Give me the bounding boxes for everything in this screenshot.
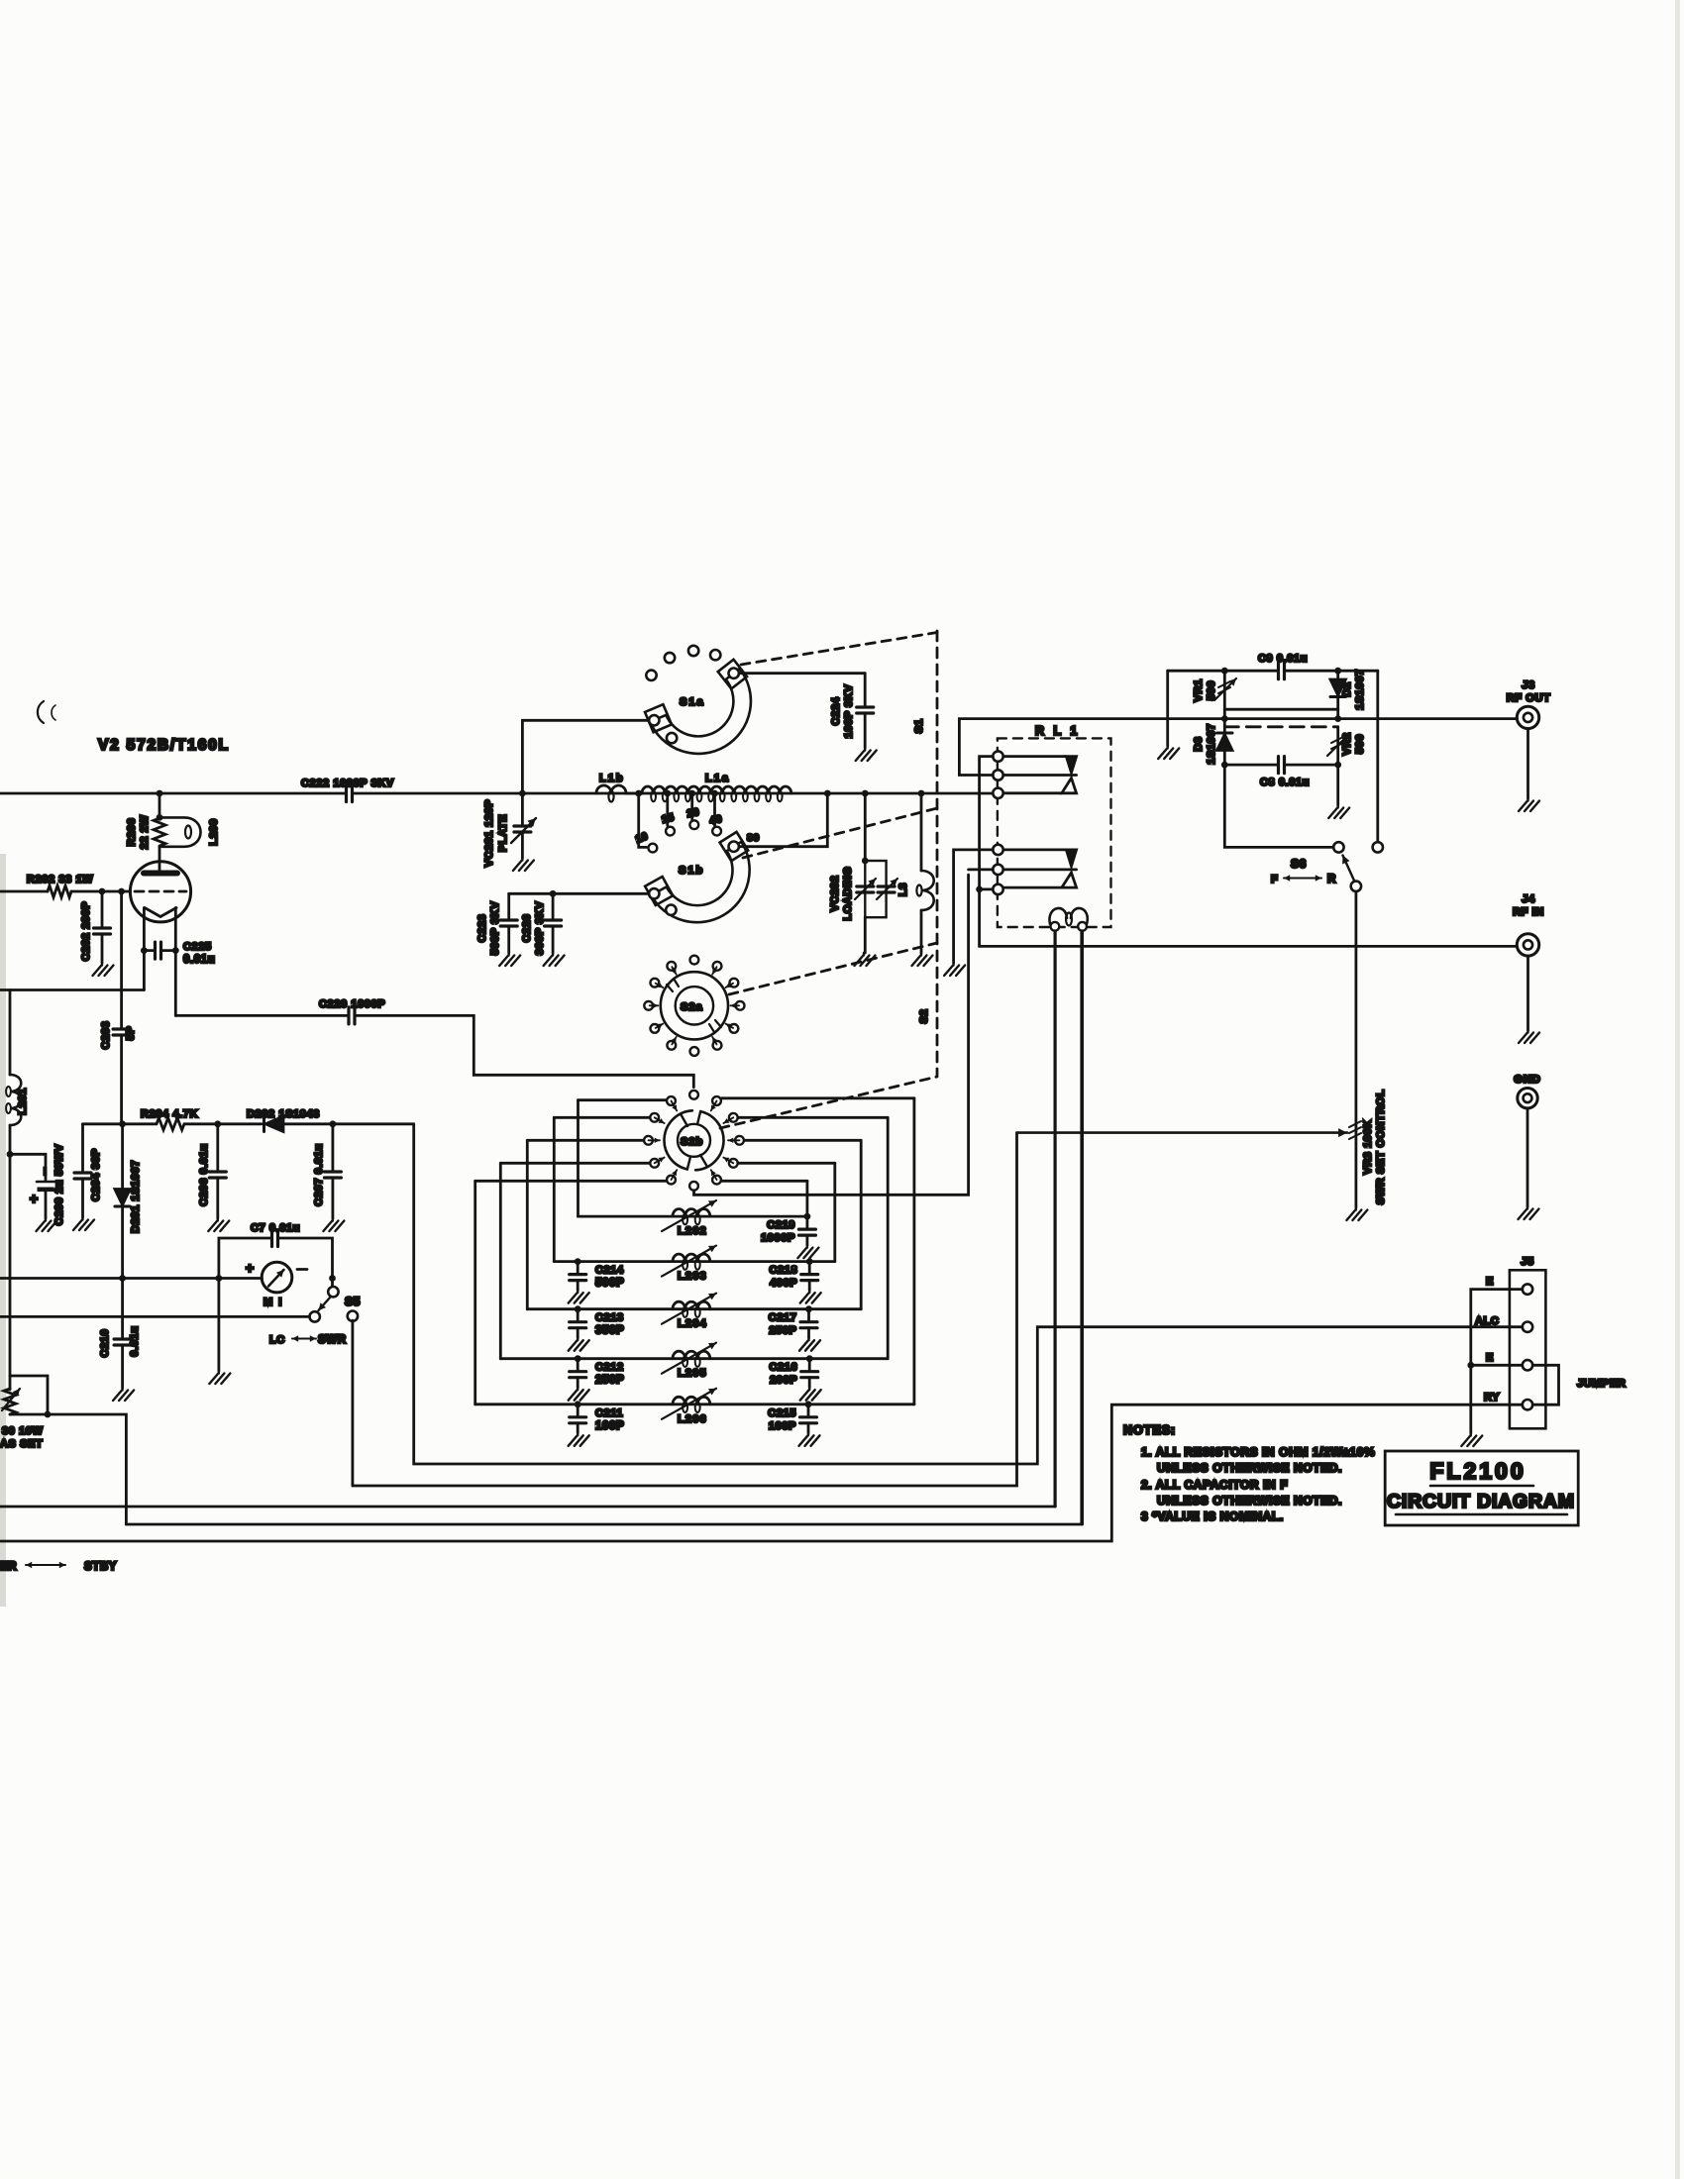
S1a contact <box>665 653 675 663</box>
svg-text:M I: M I <box>263 1297 283 1308</box>
svg-text:400P: 400P <box>770 1278 797 1290</box>
terminal 10 <box>649 844 658 853</box>
node main line right <box>1334 715 1341 722</box>
S1a contact (engaged right) <box>729 669 739 678</box>
wire to row1 right <box>806 1181 809 1216</box>
node C209 branch <box>7 1151 14 1158</box>
ground C206 <box>208 1218 229 1231</box>
svg-text:AS SET: AS SET <box>0 1438 43 1450</box>
svg-text:R204 4.7K: R204 4.7K <box>141 1108 198 1120</box>
capacitor C210 <box>121 1279 124 1338</box>
wire RL1 coil B to bus4 <box>1081 931 1084 1524</box>
capacitor C204 <box>74 1173 91 1179</box>
wire S2b NE contact <box>722 1096 914 1099</box>
wire S2b SW contact <box>475 1180 667 1183</box>
wire S2b rotor bottom to RL1 c5 <box>694 875 969 1195</box>
wire bias to bus4 <box>10 1414 126 1524</box>
wire J4 to ground <box>1526 956 1529 1030</box>
ground C216 <box>800 1388 821 1401</box>
svg-text:C214: C214 <box>595 1265 624 1277</box>
svg-text:L206: L206 <box>678 1413 707 1425</box>
node C7 left <box>216 1275 223 1282</box>
wire left rail to L201 <box>9 990 12 1076</box>
svg-text:STBY: STBY <box>84 1561 117 1573</box>
wire C8 right to ground <box>1336 765 1339 805</box>
node VC201/S1a <box>519 790 526 797</box>
wire row L204 <box>527 1307 861 1310</box>
ground C211 <box>569 1433 589 1446</box>
node main line left <box>1221 715 1228 722</box>
svg-text:200P: 200P <box>770 1375 797 1387</box>
svg-text:L201: L201 <box>17 1088 29 1114</box>
node C8 left <box>1221 762 1228 769</box>
svg-text:S2a: S2a <box>681 1001 703 1013</box>
wire bridge bottom rail <box>1224 764 1278 767</box>
ground meter <box>209 1371 230 1384</box>
svg-text:30 10W: 30 10W <box>2 1425 44 1437</box>
S2b contact <box>689 1091 698 1099</box>
ground L3 <box>912 953 933 966</box>
svg-text:C212: C212 <box>595 1362 624 1374</box>
wire C7 rail <box>219 1238 271 1279</box>
S2b contact <box>650 1159 659 1168</box>
scan edge band right <box>1675 0 1680 2179</box>
wire bus4 riser <box>1080 931 1083 1524</box>
svg-text:C213: C213 <box>595 1312 624 1324</box>
capacitor C226 <box>545 920 562 926</box>
ground VR3 <box>1346 1207 1367 1220</box>
dashed gang line S2a <box>729 943 937 994</box>
svg-text:RF OUT: RF OUT <box>1507 692 1551 704</box>
wire plate line left <box>0 792 346 795</box>
S1a contact <box>646 671 656 680</box>
capacitor C209 (electrolytic) <box>37 1181 54 1184</box>
wire tap 15 <box>666 793 669 826</box>
wire RL1 c4 to ground <box>954 850 994 963</box>
variable resistor VR1 <box>1223 671 1226 709</box>
wire S6 to VR3 <box>1355 891 1358 1131</box>
ground C224 <box>856 748 877 761</box>
RL1 contact c2 <box>993 770 1002 780</box>
svg-text:C217: C217 <box>769 1312 797 1324</box>
svg-text:E: E <box>1486 1276 1494 1288</box>
wire S2b E contact <box>745 1139 862 1142</box>
S2a contact <box>713 962 722 971</box>
svg-text:80: 80 <box>747 832 760 844</box>
svg-text:L3: L3 <box>897 883 909 896</box>
svg-text:GND: GND <box>1514 1074 1540 1086</box>
svg-text:C220 1000P: C220 1000P <box>319 998 385 1010</box>
capacitor C218 <box>801 1275 818 1281</box>
node L3 <box>918 790 925 797</box>
svg-text:JUMPER: JUMPER <box>1577 1378 1626 1390</box>
wire VC202 to ground <box>864 917 867 953</box>
wire to row5 right <box>913 1098 916 1404</box>
svg-text:L1b: L1b <box>599 773 625 784</box>
svg-text:100P 3KV: 100P 3KV <box>843 684 855 739</box>
svg-text:C224: C224 <box>830 696 842 725</box>
svg-text:40: 40 <box>708 813 723 827</box>
svg-text:ER: ER <box>0 1561 17 1573</box>
wire tap 40 <box>713 793 716 826</box>
svg-text:L209: L209 <box>208 818 220 845</box>
S2b contact <box>729 1113 738 1122</box>
wire cathode to C220 <box>174 951 177 1016</box>
S2a contact <box>713 1041 722 1050</box>
svg-text:R202 33 1W: R202 33 1W <box>27 874 93 885</box>
svg-text:C210: C210 <box>99 1329 111 1358</box>
J5 pin E1 <box>1523 1284 1532 1294</box>
svg-text:1. ALL RESISTORS IN OHM 1/: 1. ALL RESISTORS IN OHM 1/2W±10% <box>1141 1445 1375 1459</box>
capacitor C202 <box>94 928 111 934</box>
ground C214 <box>569 1291 589 1303</box>
wire S2b ENE contact <box>739 1116 889 1119</box>
ground bridge right <box>1328 805 1349 818</box>
ground C218 <box>800 1291 821 1303</box>
wire S2b ESE contact <box>739 1162 835 1165</box>
wire bus3 left <box>0 1506 1055 1508</box>
svg-text:250P: 250P <box>769 1325 796 1337</box>
S1a contact <box>688 646 698 656</box>
wire RY bus <box>0 1404 1523 1541</box>
terminal 20 <box>689 820 698 829</box>
svg-text:F: F <box>1271 874 1278 885</box>
svg-text:+: + <box>30 1191 39 1206</box>
terminal 40 <box>712 827 721 836</box>
wire to row4 right <box>887 1117 890 1358</box>
svg-text:C8 0.01u: C8 0.01u <box>1260 777 1310 788</box>
rotary switch S2a <box>661 972 728 1039</box>
svg-text:C218: C218 <box>769 1265 797 1277</box>
wire ALC bus (D202 to J5 ALC) <box>414 1124 1523 1464</box>
svg-text:R206: R206 <box>126 818 138 847</box>
wire meter left to ground <box>217 1279 220 1372</box>
dashed coupling line <box>1224 725 1337 728</box>
wire to VC201 <box>521 793 524 824</box>
wire S1a left to plate line <box>522 720 649 791</box>
svg-text:C215: C215 <box>768 1407 796 1419</box>
connector J4 RF IN <box>1517 934 1538 956</box>
capacitor C217 <box>800 1322 817 1328</box>
node C217 <box>805 1305 812 1312</box>
wire E pins common <box>1471 1290 1523 1433</box>
wire to row1 left <box>577 1100 579 1216</box>
J5 pin RY <box>1523 1400 1532 1409</box>
node tap 40 <box>711 790 718 797</box>
wire bridge to S6 F contact <box>1224 765 1332 847</box>
ground C219 <box>797 1245 818 1258</box>
ground C215 <box>799 1433 820 1446</box>
wire to C207 <box>331 1124 334 1170</box>
inductor L206 (variable) <box>673 1397 710 1404</box>
svg-text:PLATE: PLATE <box>497 814 509 852</box>
svg-text:250P: 250P <box>595 1375 624 1387</box>
S2a contact <box>736 1001 745 1010</box>
node VC202 <box>862 790 869 797</box>
node tap 10 <box>635 790 642 797</box>
svg-text:R: R <box>1327 874 1336 885</box>
node C206 <box>214 1120 221 1127</box>
wire to row5 left <box>474 1181 476 1404</box>
node C207 <box>330 1120 337 1127</box>
tube V2 cathode <box>145 908 176 917</box>
capacitor C9 (series) <box>1279 663 1285 679</box>
wire row L206 <box>475 1403 914 1405</box>
inductor L205 (variable) <box>673 1351 710 1358</box>
S2a contact <box>690 1047 699 1056</box>
svg-text:ALC: ALC <box>1475 1315 1499 1327</box>
svg-text:C203: C203 <box>100 1021 112 1050</box>
ground GND <box>1519 1206 1539 1219</box>
svg-text:500: 500 <box>1206 680 1217 700</box>
S2a contact <box>690 956 699 965</box>
svg-text:D3: D3 <box>1193 736 1205 751</box>
ground C223 <box>499 953 520 966</box>
variable capacitor VC202 (2-gang) <box>865 861 886 917</box>
wire 80 tap to plate line <box>739 795 827 847</box>
wire C223 <box>507 893 510 918</box>
ground J4 <box>1519 1030 1539 1043</box>
ground C217 <box>799 1338 820 1351</box>
node C225 right <box>172 947 179 954</box>
ground C226 <box>544 953 565 966</box>
svg-text:5P: 5P <box>125 1026 137 1041</box>
inductor L3 <box>921 871 934 910</box>
inductor L1b <box>596 785 626 793</box>
switch S5 <box>331 1279 334 1288</box>
node D201-C210 <box>119 1275 126 1282</box>
S2b contact <box>712 1176 721 1185</box>
wire to row2 left <box>553 1117 556 1261</box>
capacitor C224 <box>857 707 874 713</box>
capacitor C225 <box>156 942 161 959</box>
ground J3 <box>1519 798 1539 811</box>
inductor L203 (variable) <box>673 1254 710 1261</box>
wire row L205 <box>500 1357 888 1360</box>
S1a ring hole <box>667 733 677 743</box>
svg-text:C216: C216 <box>769 1362 797 1374</box>
RL1 contact c4 <box>993 845 1002 855</box>
terminal 15 <box>666 827 675 836</box>
svg-text:SWR: SWR <box>318 1334 347 1346</box>
svg-text:J4: J4 <box>1522 893 1535 905</box>
wire C225 right <box>161 949 176 952</box>
svg-text:V2 572B/T160L: V2 572B/T160L <box>98 737 230 754</box>
ground C212 <box>569 1388 589 1401</box>
wire R206 to plate <box>158 847 161 871</box>
resistor R206 <box>154 818 165 846</box>
wire bus3 riser <box>1054 931 1057 1507</box>
svg-text:VC202: VC202 <box>829 876 841 912</box>
svg-text:C219: C219 <box>767 1219 795 1231</box>
S1b ring hole <box>666 905 676 915</box>
svg-text:L205: L205 <box>678 1368 707 1380</box>
wire to C202 <box>101 891 104 927</box>
svg-text:NOTES:: NOTES: <box>1123 1423 1176 1437</box>
wire bus4 <box>126 1523 1081 1526</box>
svg-text:2. ALL CAPACITOR IN F: 2. ALL CAPACITOR IN F <box>1141 1478 1288 1492</box>
capacitor C216 <box>801 1372 818 1378</box>
capacitor C203 <box>113 1029 130 1035</box>
wire tap 10 <box>639 793 647 847</box>
wire C224 top <box>864 674 867 705</box>
ground VC201 <box>513 858 534 871</box>
wire S1a right to C224 <box>739 672 865 675</box>
svg-text:C206 0.01u: C206 0.01u <box>198 1143 210 1205</box>
node 80 tap <box>824 790 831 797</box>
svg-text:UNLESS OTHERWISE NOTED.: UNLESS OTHERWISE NOTED. <box>1157 1461 1342 1475</box>
wire C226 <box>552 893 555 918</box>
svg-text:S1b: S1b <box>679 865 704 877</box>
resistor R202 <box>48 885 71 897</box>
RL1 contact c3 <box>993 788 1002 798</box>
inductor L1a <box>642 786 791 793</box>
wire to VC202 <box>864 793 867 861</box>
S2a contact <box>667 962 676 971</box>
svg-text:VR1: VR1 <box>1193 678 1205 701</box>
svg-text:20: 20 <box>685 806 700 820</box>
svg-text:C209 2u 50WV: C209 2u 50WV <box>53 1144 65 1225</box>
svg-text:100P: 100P <box>769 1420 796 1432</box>
VC201 arrow <box>511 818 536 843</box>
svg-text:0.01u: 0.01u <box>129 1325 141 1356</box>
connector J3 RF OUT <box>1517 706 1538 728</box>
svg-text:L202: L202 <box>678 1225 707 1237</box>
svg-text:C202 200P: C202 200P <box>80 901 92 961</box>
capacitor C222 (series) <box>347 785 353 802</box>
svg-text:L204: L204 <box>678 1318 707 1330</box>
wire to E2 pin <box>1471 1364 1523 1367</box>
svg-text:+: + <box>246 1260 255 1276</box>
ground C204 <box>73 1217 94 1230</box>
node C212 <box>575 1355 581 1362</box>
ground C213 <box>569 1338 589 1351</box>
node tap 20 <box>688 790 695 797</box>
svg-text:S1a: S1a <box>680 696 705 708</box>
capacitor C207 <box>324 1172 341 1178</box>
node C213 <box>575 1305 581 1312</box>
wire grid line <box>0 890 48 893</box>
svg-text:E: E <box>1486 1352 1494 1364</box>
wire RL1 c5 <box>969 869 994 872</box>
capacitor C223 <box>500 920 517 926</box>
J5 pin ALC <box>1523 1322 1532 1332</box>
S2b contact <box>712 1096 721 1105</box>
rotary switch S1a <box>718 660 747 689</box>
S2b contact <box>735 1136 744 1145</box>
S6 contact R <box>1373 842 1383 852</box>
S2a contact <box>644 1001 653 1010</box>
node C203 branch <box>118 888 125 895</box>
S1a contact (engaged left) <box>649 715 659 725</box>
S2b contact <box>667 1176 676 1185</box>
J5 pin E2 <box>1523 1360 1532 1370</box>
resistor R204 <box>157 1118 184 1130</box>
tube V2 grid <box>135 890 186 893</box>
connector GND <box>1518 1089 1537 1108</box>
dashed gang line S1b <box>743 808 937 858</box>
relay RL1 lower armature <box>1003 849 1066 852</box>
wire D202 to bus1 corner <box>283 1122 414 1125</box>
svg-text:C223: C223 <box>476 914 488 943</box>
capacitor C220 (series) <box>349 1007 355 1024</box>
svg-text:LOADING: LOADING <box>842 867 854 921</box>
svg-text:J3: J3 <box>1522 679 1534 691</box>
capacitor C214 <box>570 1275 586 1281</box>
wire tap 20 <box>690 793 693 819</box>
svg-text:1S1007: 1S1007 <box>1354 669 1366 710</box>
capacitor C215 <box>800 1417 817 1423</box>
wire S2b WNW contact <box>554 1116 649 1119</box>
RL1 contact c5 <box>993 865 1002 875</box>
capacitor C219 <box>798 1229 815 1235</box>
wire S2b SE contact <box>722 1180 807 1183</box>
svg-text:C225: C225 <box>183 941 212 953</box>
wire plate line to RL1 c3 <box>353 792 994 795</box>
diode D3 <box>1223 719 1226 766</box>
svg-text:C211: C211 <box>595 1407 623 1419</box>
RL1 contact c6 <box>993 884 1002 894</box>
wire L3 to ground <box>920 910 923 953</box>
capacitor C212 <box>570 1372 586 1378</box>
node bias out <box>45 1411 52 1418</box>
title box FL2100 CIRCUIT DIAGRAM <box>1385 1451 1578 1525</box>
node C219 <box>804 1213 811 1220</box>
ground RL1 c4 <box>944 963 965 976</box>
dashed gang line S1a <box>741 633 937 666</box>
ground C209 <box>37 1218 57 1231</box>
svg-text:S1: S1 <box>913 719 925 734</box>
wire bridge mid rail <box>1224 708 1337 711</box>
svg-text:J5: J5 <box>1521 1256 1533 1268</box>
svg-text:FL2100: FL2100 <box>1429 1458 1526 1484</box>
wire VR3 wiper from bus2 <box>1017 1131 1348 1134</box>
S1b contact (engaged left) <box>649 888 659 898</box>
svg-text:S6: S6 <box>1291 857 1307 871</box>
node C218 <box>806 1258 813 1265</box>
inductor L202 (variable) <box>673 1209 710 1216</box>
wire C220 left <box>175 1014 348 1017</box>
ground C202 <box>93 963 114 976</box>
S6 contact F <box>1333 842 1343 852</box>
wire bias bypass <box>10 1376 48 1414</box>
svg-text:0.01u: 0.01u <box>183 954 215 966</box>
wire row L202 <box>579 1215 807 1218</box>
node C216 <box>806 1355 813 1362</box>
node c1-c6 join <box>976 886 983 893</box>
wire RL1 coil A to bus3 <box>1054 931 1057 1507</box>
wire to C209 <box>10 1154 46 1180</box>
node VR1 top <box>1221 668 1228 675</box>
ground VC202 <box>855 953 876 966</box>
tube V2 envelope <box>130 862 190 922</box>
node VC202 box top <box>862 858 869 865</box>
ground C210 <box>113 1388 134 1401</box>
svg-text:500P: 500P <box>595 1278 624 1290</box>
S2b contact <box>729 1159 738 1168</box>
wire S1b left to C223/C226 <box>509 892 649 895</box>
wire GND to ground <box>1526 1108 1529 1206</box>
svg-text:I.C: I.C <box>269 1334 285 1346</box>
wire meter line <box>0 1277 262 1280</box>
wire RL1 c6 to J4 RF IN <box>980 889 1518 947</box>
diode D2 <box>1336 671 1339 709</box>
svg-text:C204 30P: C204 30P <box>90 1148 102 1201</box>
svg-text:UNLESS OTHERWISE NOTED.: UNLESS OTHERWISE NOTED. <box>1157 1494 1342 1508</box>
wire to row4 left <box>499 1163 502 1358</box>
node C226 <box>550 890 557 897</box>
wire to L3 <box>920 793 923 871</box>
